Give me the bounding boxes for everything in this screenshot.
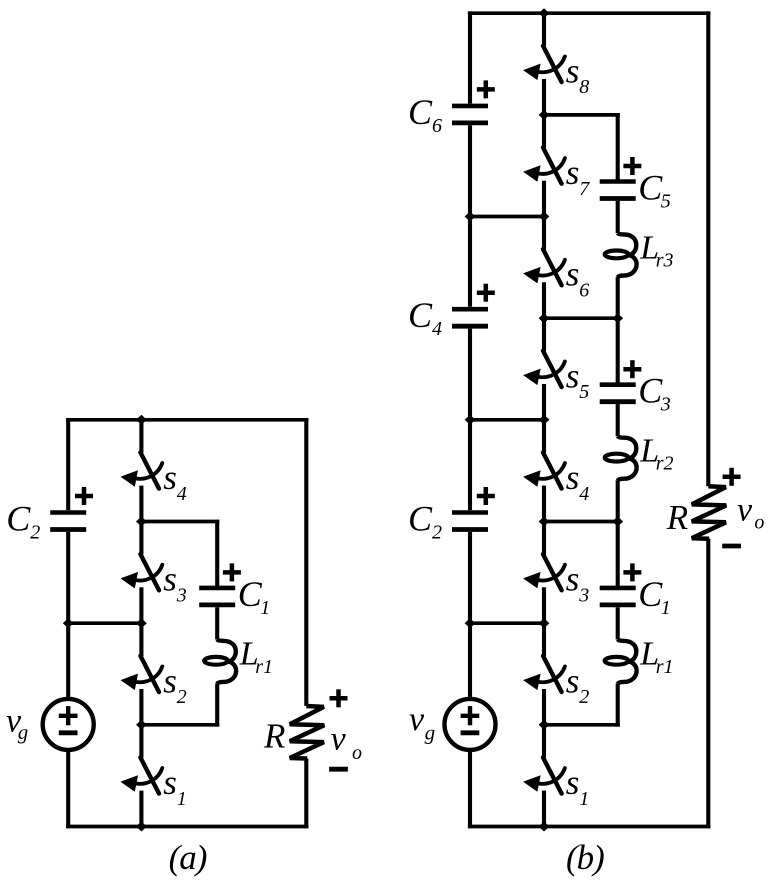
svg-text:3: 3 [660,394,671,416]
wire left rail upper (a) [66,418,70,510]
switch S8 (b) [523,13,565,115]
node row r6 center (b) [539,618,550,628]
wire branch bottom link row r7 (a) [141,723,219,727]
label C2 (a) [6,499,40,544]
node row r2 center (b) [539,212,550,222]
svg-text:r2: r2 [656,453,674,475]
label S2 (a) [163,661,187,708]
svg-text:v: v [409,701,425,738]
wire branch C5 top lead (b) [616,113,620,180]
minus sign vo (a) [329,767,348,772]
node bottom center (a) [136,822,147,832]
label vg (a) [6,703,28,744]
switch S2 (b) [523,623,565,725]
node r3 branch (b) [612,313,623,323]
capacitor C5 (b) [600,157,642,199]
node row r5 center (b) [539,517,550,527]
label S4 (a) [163,458,187,505]
capacitor C2 (a) [50,487,93,530]
svg-text:C: C [6,499,31,539]
node row r1 center (b) [539,110,550,120]
wire top rail (a) [66,418,308,422]
node r6 center (a) [136,618,147,628]
wire right rail upper (a) [304,418,308,706]
plus sign vo (a) [330,689,348,707]
node r2 left (b) [465,212,476,222]
node row r8 center (b) [539,822,550,832]
wire node link row r2 (b) [470,215,544,219]
svg-text:r1: r1 [255,656,273,678]
inductor Lr3 (b) [605,233,637,277]
wire top rail (b) [468,11,711,15]
capacitor C1 (a) [199,563,241,605]
wire C3 to Lr2 (b) [616,404,620,436]
label S2 (b) [566,661,590,708]
svg-text:1: 1 [177,788,187,810]
svg-text:5: 5 [661,191,671,213]
switch S2 (a) [121,623,163,725]
wire branch top link row r1 (b) [544,113,620,117]
label S3 (a) [163,560,187,607]
svg-text:4: 4 [177,483,187,505]
svg-text:s: s [566,458,580,497]
label S6 (b) [566,255,590,302]
svg-text:6: 6 [579,280,589,302]
wire row r3 link (b) [544,316,618,320]
switch S1 (a) [121,725,163,827]
wire bottom rail (a) [66,825,308,829]
node row r3 center (b) [539,313,550,323]
label vo (b) [737,492,764,534]
node r4 left (b) [465,415,476,425]
switch S3 (a) [121,522,163,624]
wire left rail mid segment (a) [66,532,70,699]
capacitor C3 (b) [600,360,642,402]
inductor Lr1 (a) [204,640,236,684]
label vo (a) [331,720,362,764]
svg-text:s: s [566,356,580,395]
switch S1 (b) [523,725,565,827]
inductor Lr2 (b) [605,436,637,480]
svg-text:s: s [566,255,580,294]
svg-text:o: o [352,742,362,764]
svg-text:s: s [566,763,580,802]
wire node link row r6 (a) [68,621,141,625]
svg-text:4: 4 [432,318,442,340]
svg-text:C: C [408,499,433,539]
svg-text:1: 1 [661,597,671,619]
switch S7 (b) [523,115,565,217]
wire branch bottom link row r7 (b) [544,723,620,727]
wire left rail segment C2-vg (b) [468,532,472,699]
node r6 left (a) [63,618,74,628]
svg-text:2: 2 [432,522,442,544]
svg-text:g: g [18,720,29,744]
wire left rail segment C4-C2 (b) [468,329,472,511]
node r7 center (a) [136,720,147,730]
voltage source vg (a) [43,699,94,750]
svg-text:7: 7 [579,178,590,200]
label C1 (a) [238,574,271,619]
node top center (a) [136,415,147,425]
node row r0 center (b) [539,8,550,18]
node row r4 center (b) [539,415,550,425]
svg-text:C: C [638,371,663,411]
label R (b) [666,498,688,537]
svg-text:R: R [666,498,688,537]
svg-text:g: g [425,720,436,744]
svg-text:(b): (b) [566,838,604,877]
caption (b) [566,838,604,877]
svg-text:s: s [566,560,580,599]
svg-text:r1: r1 [656,656,674,678]
svg-text:v: v [331,720,347,757]
switch S3 (b) [523,522,565,624]
minus sign vo (b) [722,544,741,549]
svg-text:v: v [737,492,753,529]
svg-text:o: o [754,512,764,534]
wire branch C1 top lead (a) [215,520,219,587]
svg-text:1: 1 [260,597,270,619]
switch S4 (a) [121,420,163,522]
svg-text:1: 1 [579,788,589,810]
svg-text:C: C [638,574,663,614]
svg-text:(a): (a) [169,838,207,877]
svg-text:3: 3 [176,585,187,607]
label C4 (b) [408,295,442,340]
label S7 (b) [566,153,591,200]
label C5 (b) [638,168,671,213]
svg-text:C: C [408,295,433,335]
svg-text:5: 5 [579,381,589,403]
label C2 (b) [408,499,442,544]
wire Lr1 bottom lead (a) [215,684,219,727]
wire C5 to Lr3 (b) [616,201,620,233]
label Lr2 (b) [639,433,673,475]
plus sign vo (b) [723,468,741,486]
wire node link row r6 (b) [470,621,544,625]
wire C1 to Lr1 (b) [616,607,620,639]
svg-text:8: 8 [579,76,589,98]
svg-text:2: 2 [579,686,589,708]
capacitor C2 (b) [452,487,495,530]
node row r7 center (b) [539,720,550,730]
svg-text:C: C [408,92,433,132]
svg-text:C: C [238,574,263,614]
wire C1 to Lr1 (a) [215,607,219,639]
svg-text:3: 3 [578,585,589,607]
svg-text:r3: r3 [656,250,674,272]
label S1 (b) [566,763,590,810]
svg-text:s: s [163,560,177,599]
svg-text:s: s [163,763,177,802]
wire right rail upper (b) [706,11,710,486]
resistor R (b) [692,486,726,539]
label vg (b) [409,701,435,744]
svg-text:s: s [566,153,580,192]
svg-text:s: s [566,51,580,90]
wire node link row r4 (b) [470,418,544,422]
svg-text:2: 2 [30,522,40,544]
svg-text:R: R [263,717,285,756]
switch S6 (b) [523,217,565,319]
label C1 (b) [638,574,671,619]
svg-text:6: 6 [432,115,442,137]
wire left rail segment C6-C4 (b) [468,125,472,306]
wire right rail lower (b) [706,539,710,829]
node r6 left (b) [465,618,476,628]
wire left rail lower (b) [468,750,472,828]
svg-text:s: s [566,661,580,700]
svg-text:C: C [638,168,663,208]
switch S4 (b) [523,420,565,522]
inductor Lr1 (b) [605,640,637,684]
node r5 branch (b) [612,517,623,527]
wire left rail lower (a) [66,750,70,828]
capacitor C1 (b) [600,563,642,605]
node r5 center (a) [136,517,147,527]
resistor R (a) [290,706,324,759]
svg-text:s: s [163,661,177,700]
wire left rail upper (b) [468,11,472,103]
capacitor C4 (b) [452,284,495,327]
switch S5 (b) [523,318,565,420]
label S3 (b) [566,560,590,607]
wire branch top link row r5 (a) [141,520,219,524]
svg-text:2: 2 [177,686,187,708]
label S5 (b) [566,356,590,403]
label C3 (b) [638,371,671,416]
svg-text:s: s [163,458,177,497]
label Lr1 (a) [239,636,273,678]
wire row r5 link (b) [544,520,618,524]
svg-text:4: 4 [579,483,589,505]
label R (a) [263,717,285,756]
label Lr1 (b) [639,636,673,678]
voltage source vg (b) [445,699,496,750]
wire Lr2 to C1 (b) [616,480,620,586]
capacitor C6 (b) [452,80,495,123]
wire right rail lower (a) [304,759,308,829]
wire Lr1 bottom lead (b) [616,684,620,727]
label C6 (b) [408,92,442,137]
wire bottom rail (b) [468,825,711,829]
caption (a) [169,838,207,877]
label S8 (b) [566,51,590,98]
wire Lr3 to C3 (b) [616,277,620,383]
label S4 (b) [566,458,590,505]
label Lr3 (b) [639,229,673,271]
label S1 (a) [163,763,187,810]
